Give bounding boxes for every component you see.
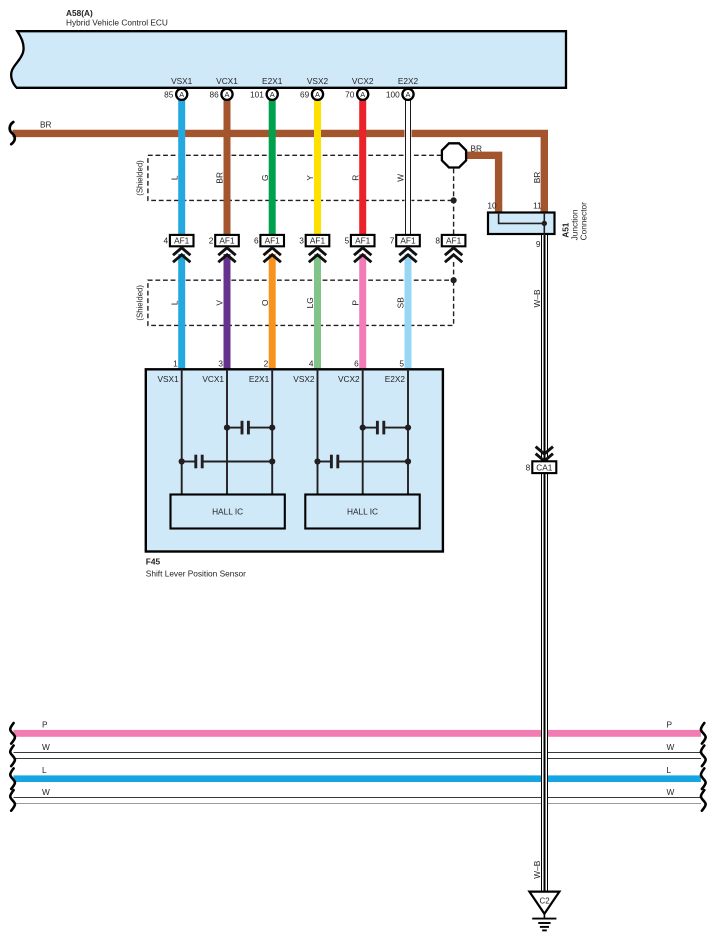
break symbol L left [10,768,15,789]
svg-text:W: W [42,787,50,797]
svg-text:6: 6 [354,358,359,368]
svg-text:Hybrid Vehicle Control ECU: Hybrid Vehicle Control ECU [66,18,168,28]
svg-text:6: 6 [254,236,259,246]
junction connector A51 [488,213,555,235]
svg-text:P: P [42,720,48,730]
svg-text:Shift Lever Position Sensor: Shift Lever Position Sensor [146,569,246,579]
wire L [178,254,185,370]
svg-text:P: P [350,300,360,306]
sensor block F45 [146,369,443,551]
capacitor lower-left [182,461,196,463]
wire L VSX1 [178,99,185,236]
svg-text:11: 11 [533,200,542,210]
connector 7 AF1 [396,235,420,246]
svg-text:LG: LG [305,297,315,308]
wire LG [314,254,321,370]
svg-text:E2X1: E2X1 [262,76,283,86]
svg-text:100: 100 [386,89,400,99]
svg-text:VCX1: VCX1 [202,374,224,384]
svg-text:AF1: AF1 [265,236,281,246]
A51 internal bus bar [499,213,545,236]
wire P horizontal (pink) [14,730,701,737]
svg-text:E2X1: E2X1 [249,374,270,384]
svg-text:(Shielded): (Shielded) [135,160,144,196]
wire W horizontal 2 (white) [14,798,701,804]
break symbol left end of BR wire [10,122,15,144]
svg-text:3: 3 [218,358,223,368]
svg-text:VSX2: VSX2 [307,76,329,86]
svg-text:AF1: AF1 [310,236,326,246]
svg-text:BR: BR [215,172,225,184]
pin 86 circle A [221,89,232,100]
HALL IC right [305,495,419,529]
svg-text:SB: SB [396,297,406,309]
svg-text:VCX2: VCX2 [338,374,360,384]
svg-text:5: 5 [344,236,349,246]
capacitor upper-left [227,427,242,429]
wire W horizontal 1 (white) [14,753,701,759]
connector 5 AF1 [351,235,375,246]
chevron arrows under AF1 [309,248,326,262]
svg-text:(Shielded): (Shielded) [135,285,144,321]
svg-text:L: L [667,765,672,775]
svg-text:HALL IC: HALL IC [347,507,378,517]
svg-text:G: G [260,175,270,181]
svg-text:8: 8 [526,462,531,472]
wire BR horizontal from left break to junction connector pin 11 [13,133,545,214]
connector 3 AF1 [306,235,330,246]
ground symbol [543,914,545,919]
chevron arrows above CA1 (down) [536,447,553,461]
capacitor lower-right [318,461,332,463]
HALL IC left [171,495,285,529]
svg-text:85: 85 [164,89,174,99]
junction dot shield/box1 [451,197,457,203]
svg-text:4: 4 [163,236,168,246]
shield ground octagon [442,143,466,167]
chevron arrows under AF1 [399,248,416,262]
svg-text:E2X2: E2X2 [398,76,419,86]
connector 6 AF1 [260,235,284,246]
svg-text:Connector: Connector [579,202,589,241]
svg-text:VSX1: VSX1 [157,374,179,384]
svg-text:P: P [667,720,673,730]
ground triangle C2 [529,892,559,914]
svg-text:2: 2 [209,236,214,246]
wire BR VCX1 [224,99,231,236]
break symbol P left [10,723,15,744]
svg-text:A: A [270,90,275,99]
break symbol L right [701,768,706,789]
svg-text:Y: Y [305,175,315,181]
svg-text:BR: BR [532,172,542,184]
svg-text:A: A [406,90,411,99]
junction dot shield/box2 [451,277,457,283]
svg-text:A: A [360,90,365,99]
svg-text:AF1: AF1 [400,236,416,246]
svg-text:5: 5 [399,358,404,368]
svg-text:8: 8 [435,236,440,246]
pin 100 circle A [402,89,413,100]
internal vertical wires + cell dividers [181,369,183,495]
svg-text:W–B: W–B [532,289,542,307]
svg-text:86: 86 [209,89,219,99]
svg-text:AF1: AF1 [446,236,462,246]
wire R VCX2 [359,99,366,236]
connector 4 AF1 [170,235,194,246]
chevron arrows under AF1 [264,248,281,262]
svg-text:101: 101 [250,89,264,99]
svg-text:VSX1: VSX1 [171,76,193,86]
break symbol W right [701,790,706,811]
svg-text:VSX2: VSX2 [293,374,315,384]
svg-text:HALL IC: HALL IC [212,507,243,517]
svg-text:CA1: CA1 [536,462,553,472]
break symbol P right [701,723,706,744]
break symbol W right [701,746,706,767]
svg-text:BR: BR [40,120,52,130]
svg-text:A: A [315,90,320,99]
svg-text:L: L [42,765,47,775]
svg-text:AF1: AF1 [355,236,371,246]
wire L horizontal (blue) [14,775,701,782]
svg-text:VCX1: VCX1 [216,76,238,86]
pin 101 circle A [267,89,278,100]
svg-text:R: R [350,175,360,181]
svg-text:2: 2 [264,358,269,368]
svg-text:W–B: W–B [532,860,542,878]
svg-text:O: O [260,299,270,306]
svg-text:W: W [667,787,675,797]
svg-text:W: W [396,174,406,182]
A51 pin 9 junction dot [542,221,547,226]
svg-text:F45: F45 [146,557,161,567]
svg-text:BR: BR [471,143,483,153]
wire BR from shield octagon to junction connector pin 10 [462,155,499,214]
wire W-B vertical (white-black) [541,235,548,891]
wire Y VSX2 [314,99,321,236]
capacitor upper-right [363,427,378,429]
svg-text:VCX2: VCX2 [352,76,374,86]
svg-text:V: V [215,300,225,306]
svg-text:69: 69 [300,89,310,99]
svg-text:A: A [179,90,184,99]
svg-text:W: W [667,742,675,752]
chevron arrows under AF1 [354,248,371,262]
shield drain dashed wire: octagon to AF1 pin 8 [453,169,455,235]
svg-text:E2X2: E2X2 [385,374,406,384]
break symbol W left [10,790,15,811]
connector 8 AF1 [442,235,466,246]
svg-text:1: 1 [173,358,178,368]
svg-text:L: L [169,175,179,180]
chevron arrows under AF1 [173,248,190,262]
wire V [224,254,231,370]
svg-text:7: 7 [390,236,395,246]
break symbol W left [10,746,15,767]
wire O [269,254,276,370]
svg-text:A: A [225,90,230,99]
svg-text:W: W [42,742,50,752]
wire G E2X1 [269,99,276,236]
svg-text:AF1: AF1 [174,236,190,246]
pin 70 circle A [357,89,368,100]
ECU block A58 [11,31,566,88]
pin 69 circle A [312,89,323,100]
svg-text:70: 70 [345,89,355,99]
svg-text:9: 9 [536,239,541,249]
svg-text:3: 3 [299,236,304,246]
pin 85 circle A [176,89,187,100]
wire W E2X2 (white w/ black edges) [405,99,412,236]
connector 8 CA1 [532,461,556,473]
svg-text:A58(A): A58(A) [66,8,93,18]
chevron arrows under AF1 [445,248,462,262]
svg-text:AF1: AF1 [219,236,235,246]
connector 2 AF1 [215,235,239,246]
wire SB [405,254,412,370]
chevron arrows under AF1 [218,248,235,262]
svg-text:L: L [169,300,179,305]
wire P [359,254,366,370]
svg-text:C2: C2 [540,897,550,906]
svg-text:10: 10 [487,200,497,210]
svg-text:4: 4 [309,358,314,368]
shielded box 1 (upper) dashed outline [148,155,454,200]
shielded box 2 (lower) dashed outline [148,262,454,325]
